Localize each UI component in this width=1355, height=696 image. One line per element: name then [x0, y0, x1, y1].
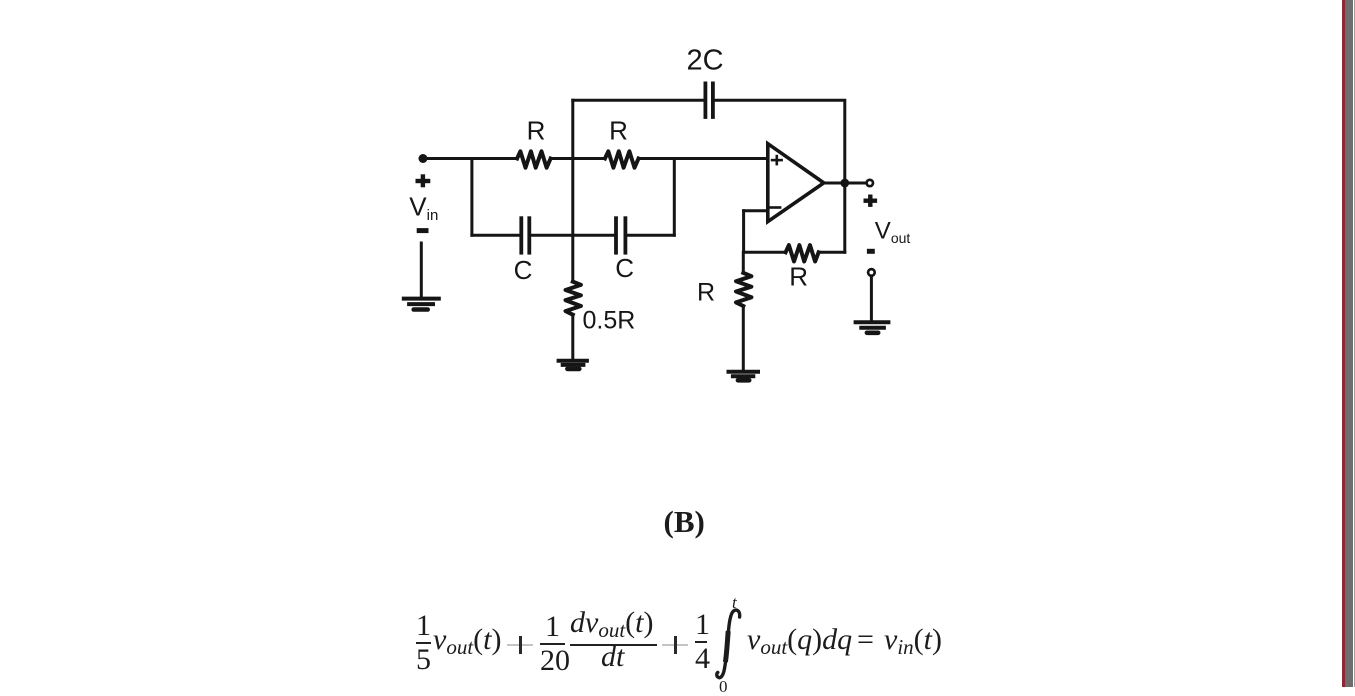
equation: (1/5)v_out(t) + (1/20)dv_out(t)/dt + (1/4)int_0^t v_out(q)dq = v_in(t)	[0, 0, 1355, 2]
eq integral lower limit 0	[719, 678, 728, 695]
wire: center bottom node to capacitor C2	[573, 234, 614, 237]
svg-text:C: C	[514, 255, 533, 285]
eq fraction dv_out(t)/dt bar	[570, 644, 657, 646]
resistor 0.5R	[566, 282, 581, 315]
ground (input)	[404, 299, 439, 310]
Vin + mark	[416, 174, 431, 187]
wire: node A down from main wire to lower branch	[470, 159, 473, 236]
eq fraction dv_out(t)/dt denominator	[601, 641, 624, 673]
capacitor 2C	[705, 83, 713, 117]
terminal: input dot	[419, 154, 428, 163]
svg-text:R: R	[697, 279, 715, 307]
wire: inverting input horizontal	[744, 209, 768, 212]
svg-text:Vout: Vout	[875, 218, 911, 247]
wire: output node down to feedback wire	[843, 183, 846, 252]
wire: Vout terminal down to ground	[870, 277, 873, 321]
wire: input terminal to resistor R1	[423, 157, 517, 160]
wire: feedback node to resistor R3	[744, 251, 786, 254]
svg-text:R: R	[527, 115, 546, 145]
op-amp U1	[768, 144, 824, 222]
eq plus sign 1	[507, 644, 533, 646]
wire: R1 to R2 through center node	[551, 157, 605, 160]
wire: C2 to node B riser	[627, 234, 674, 237]
wire: center node vertical (top wire to 0.5R)	[571, 100, 574, 281]
figure label (B)	[664, 506, 705, 537]
right edge gray bar fade	[1354, 0, 1355, 687]
resistor R2	[605, 151, 639, 167]
svg-text:R: R	[789, 262, 808, 292]
resistor R4 (to ground)	[736, 273, 751, 306]
right edge gray bar	[1345, 0, 1354, 687]
wire: lower branch left segment to capacitor C1	[472, 234, 520, 237]
svg-text:C: C	[615, 253, 634, 283]
resistor R3 (feedback R)	[786, 245, 819, 261]
eq term v_out(q)dq	[747, 624, 852, 663]
eq fraction 1/20	[540, 611, 565, 677]
svg-text:Vin: Vin	[409, 192, 438, 225]
wire: top feedback left segment (center node to 2C)	[573, 99, 704, 102]
wire: op-amp output to output node	[824, 182, 866, 185]
eq fraction 1/5	[416, 610, 431, 676]
eq equals sign	[857, 624, 874, 656]
terminal: Vout open circle	[868, 269, 875, 276]
Vout - mark	[867, 249, 875, 254]
eq term v_in(t)	[884, 624, 942, 663]
junction: output node dot	[840, 179, 849, 188]
wire: 0.5R to ground	[571, 315, 574, 361]
op-amp inverting input - mark	[770, 206, 780, 209]
capacitor C1	[521, 218, 529, 253]
svg-text:2C: 2C	[686, 45, 723, 77]
resistor R1	[517, 151, 551, 167]
wire: Vin minus terminal down to ground	[420, 243, 423, 296]
ground (op-amp R4)	[729, 372, 759, 381]
ground (0.5R)	[559, 361, 587, 369]
wire: R4 to ground	[742, 306, 745, 371]
wire: 2C to output node (top right corner)	[715, 100, 845, 183]
terminal: output open circle	[867, 180, 873, 186]
wire: feedback node to resistor R4	[742, 252, 745, 273]
Vin - mark	[417, 228, 429, 233]
wire: C1 to center bottom node	[531, 234, 573, 237]
op-amp non-inverting input + mark	[772, 156, 782, 164]
eq integral upper limit t	[732, 594, 737, 611]
right edge red accent line	[1342, 0, 1344, 687]
svg-text:0.5R: 0.5R	[583, 307, 636, 335]
capacitor C2	[616, 218, 625, 253]
Vout + mark	[864, 195, 878, 207]
eq fraction dv_out(t)/dt numerator	[570, 607, 654, 646]
eq term v_out(t)	[433, 624, 502, 663]
ground (output)	[856, 322, 889, 333]
eq fraction 1/4	[695, 609, 707, 675]
wire: R2 to op-amp non-inverting input	[639, 157, 768, 160]
wire: node B riser up to main wire	[673, 159, 676, 236]
svg-text:R: R	[609, 115, 628, 145]
eq plus sign 2	[662, 644, 688, 646]
wire: R3 to output branch vertical	[819, 251, 845, 254]
eq integral sign	[712, 595, 752, 687]
wire: inverting input down to feedback node	[742, 211, 745, 253]
